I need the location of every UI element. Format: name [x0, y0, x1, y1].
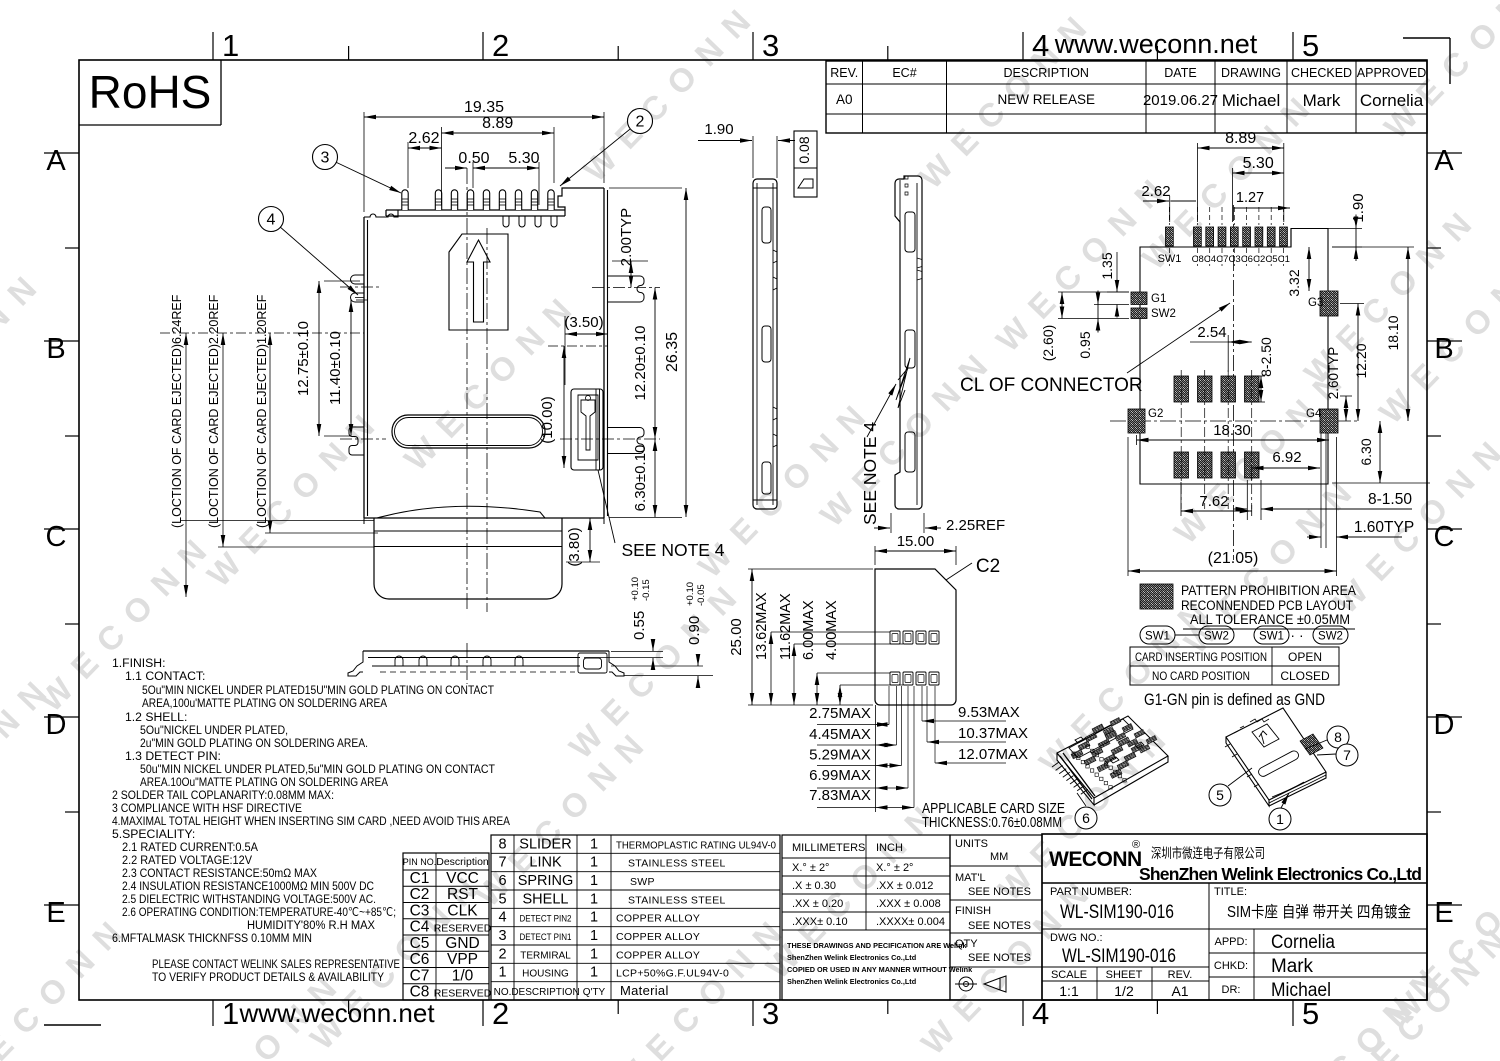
dimension 2.25REF	[874, 513, 1005, 534]
dimension 2.60 0.95 pcb	[1040, 291, 1129, 362]
dimension 1.90 pcb	[1294, 193, 1367, 261]
card contact pads row2	[890, 672, 939, 685]
svg-text:深圳市微连电子有限公司: 深圳市微连电子有限公司	[1151, 845, 1265, 861]
svg-text:X.° ± 2°: X.° ± 2°	[876, 862, 913, 874]
svg-text:1: 1	[590, 873, 598, 889]
middle pads row 1	[1174, 376, 1259, 402]
svg-text:ShenZhen Welink Electronics Co: ShenZhen Welink Electronics Co.,Ltd	[787, 953, 916, 962]
svg-text:.XXXX± 0.004: .XXXX± 0.004	[876, 916, 945, 928]
svg-text:CL OF CONNECTOR: CL OF CONNECTOR	[960, 375, 1143, 396]
svg-text:www.weconn.net: www.weconn.net	[238, 998, 435, 1028]
svg-text:2.6 OPERATING CONDITION:TEMPER: 2.6 OPERATING CONDITION:TEMPERATURE-40℃~…	[122, 905, 396, 919]
svg-text:1: 1	[590, 836, 598, 852]
svg-text:.X ± 0.30: .X ± 0.30	[792, 880, 836, 892]
svg-text:.XXX ± 0.008: .XXX ± 0.008	[876, 898, 941, 910]
svg-text:1.60TYP: 1.60TYP	[1354, 519, 1414, 536]
svg-text:26.35: 26.35	[664, 332, 681, 372]
dimension 18.30 pcb	[1137, 422, 1330, 445]
oblong slot	[392, 415, 545, 448]
svg-text:12.20±0.10: 12.20±0.10	[632, 326, 649, 401]
sw ovals	[1140, 626, 1348, 644]
svg-text:APPROVED: APPROVED	[1357, 66, 1426, 80]
3d view exploded	[1052, 716, 1168, 805]
3d view assembled	[1225, 708, 1326, 806]
svg-text:4.45MAX: 4.45MAX	[809, 726, 871, 743]
svg-text:10.37MAX: 10.37MAX	[958, 725, 1028, 742]
svg-text:Cornelia: Cornelia	[1360, 91, 1424, 110]
svg-text:SEE NOTES: SEE NOTES	[968, 920, 1031, 932]
svg-text:SLIDER: SLIDER	[519, 836, 571, 852]
svg-text:3: 3	[762, 996, 779, 1031]
svg-text:1.90: 1.90	[1350, 193, 1367, 222]
svg-text:5Ou"MIN NICKEL UNDER PLATED15U: 5Ou"MIN NICKEL UNDER PLATED15U"MIN GOLD …	[142, 683, 494, 697]
svg-text:4.00MAX: 4.00MAX	[824, 600, 840, 660]
dimension 12.20 18.10 pcb	[1332, 247, 1414, 421]
svg-text:(3.50): (3.50)	[564, 314, 603, 331]
pad C7	[1218, 227, 1226, 246]
svg-text:1.3 DETECT PIN:: 1.3 DETECT PIN:	[125, 749, 221, 763]
dimension 19.35	[364, 99, 604, 212]
RoHS logo box	[79, 60, 221, 125]
svg-text:PATTERN PROHIBITION AREA: PATTERN PROHIBITION AREA	[1181, 583, 1356, 598]
svg-text:SCALE: SCALE	[1051, 969, 1087, 981]
svg-text:DESCRIPTION: DESCRIPTION	[511, 987, 579, 998]
svg-text:B: B	[46, 333, 65, 365]
svg-text:ShenZhen Welink Electronics Co: ShenZhen Welink Electronics Co.,Ltd	[1139, 864, 1422, 884]
pad SW1 top	[1166, 227, 1174, 246]
svg-text:SPRING: SPRING	[518, 873, 574, 889]
middle pads row 2	[1174, 452, 1259, 478]
svg-text:4.MAXIMAL TOTAL HEIGHT WHEN IN: 4.MAXIMAL TOTAL HEIGHT WHEN INSERTING SI…	[112, 814, 511, 828]
svg-text:3 COMPLIANCE WITH HSF DIRECTIV: 3 COMPLIANCE WITH HSF DIRECTIVE	[112, 801, 302, 815]
svg-text:2.1 RATED CURRENT:0.5A: 2.1 RATED CURRENT:0.5A	[122, 840, 259, 854]
svg-text:Q'TY: Q'TY	[583, 987, 606, 998]
svg-text:SW1: SW1	[1259, 631, 1284, 643]
svg-text:C2: C2	[1253, 254, 1265, 265]
svg-text:C8: C8	[410, 984, 430, 1001]
dimension 8-2.50 pcb	[1252, 337, 1274, 402]
svg-text:1: 1	[222, 28, 239, 63]
see note 4 front	[598, 470, 725, 560]
svg-text:1.FINISH:: 1.FINISH:	[112, 656, 166, 670]
svg-text:D: D	[46, 709, 67, 741]
balloon 8	[1305, 726, 1349, 749]
svg-text:0.90: 0.90	[686, 616, 703, 645]
svg-text:PIN NO.: PIN NO.	[403, 857, 437, 867]
svg-text:6.30±0.10: 6.30±0.10	[632, 445, 649, 512]
svg-text:8.89: 8.89	[482, 115, 513, 132]
pad C8	[1194, 227, 1202, 246]
svg-text:1/2: 1/2	[1114, 983, 1134, 999]
svg-text:FINISH: FINISH	[955, 905, 991, 917]
svg-text:2.75MAX: 2.75MAX	[809, 705, 871, 722]
svg-text:CLK: CLK	[447, 902, 478, 919]
svg-text:1:1: 1:1	[1059, 983, 1079, 999]
dimension (21.05) pcb	[1128, 437, 1337, 576]
svg-text:(10.00): (10.00)	[539, 396, 556, 444]
svg-text:3: 3	[498, 928, 506, 944]
svg-text:1: 1	[222, 996, 239, 1031]
svg-text:A0: A0	[836, 92, 853, 107]
side view 2	[895, 176, 922, 509]
pad C6	[1243, 227, 1251, 246]
svg-text:2.54: 2.54	[1197, 324, 1226, 341]
svg-text:6.00MAX: 6.00MAX	[801, 600, 817, 660]
svg-text:DESCRIPTION: DESCRIPTION	[1004, 66, 1089, 80]
dimension 8.89 pcb	[1198, 130, 1284, 222]
svg-text:DRAWING: DRAWING	[1221, 66, 1281, 80]
svg-text:2.5 DIELECTRIC WITHSTANDING VO: 2.5 DIELECTRIC WITHSTANDING VOLTAGE:500V…	[122, 892, 376, 906]
svg-text:QTY: QTY	[955, 938, 978, 950]
svg-text:DATE: DATE	[1164, 66, 1196, 80]
svg-text:C1: C1	[410, 870, 430, 887]
svg-text:5: 5	[1302, 996, 1319, 1031]
dimension 25.00 card	[728, 569, 873, 705]
svg-text:12.20: 12.20	[1353, 343, 1369, 378]
svg-text:PART NUMBER:: PART NUMBER:	[1050, 886, 1132, 898]
svg-text:2u"MIN GOLD PLATING ON SOLDERI: 2u"MIN GOLD PLATING ON SOLDERING AREA.	[140, 736, 368, 750]
svg-text:SIM卡座 自弹 带开关 四角镀金: SIM卡座 自弹 带开关 四角镀金	[1227, 903, 1411, 921]
dimension 1.60TYP pcb	[1307, 433, 1414, 548]
svg-text:1: 1	[590, 928, 598, 944]
svg-text:APPD:: APPD:	[1214, 936, 1247, 948]
svg-text:6.92: 6.92	[1272, 449, 1301, 466]
svg-text:.XXX± 0.10: .XXX± 0.10	[792, 916, 848, 928]
svg-text:G4: G4	[1306, 408, 1322, 420]
svg-text:2: 2	[492, 996, 509, 1031]
pcb centerlines	[1110, 205, 1360, 560]
svg-text:4: 4	[267, 212, 276, 229]
svg-text:TO VERIFY PRODUCT DETAILS & AV: TO VERIFY PRODUCT DETAILS & AVAILABILITY	[152, 970, 384, 984]
side view 1	[753, 179, 777, 509]
revision table	[826, 61, 1427, 133]
svg-text:1.35: 1.35	[1099, 252, 1115, 279]
projection symbol	[955, 976, 1006, 992]
svg-text:· ·: · ·	[1290, 627, 1303, 643]
svg-text:C5: C5	[1265, 254, 1277, 265]
svg-text:A: A	[1434, 145, 1454, 177]
svg-text:(LOCTION OF CARD EJECTED)2.20R: (LOCTION OF CARD EJECTED)2.20REF	[207, 294, 221, 528]
svg-text:Material: Material	[620, 983, 669, 998]
svg-text:THICKNESS:0.76±0.08MM: THICKNESS:0.76±0.08MM	[922, 815, 1062, 831]
svg-text:1: 1	[1276, 811, 1284, 827]
svg-text:E: E	[1434, 897, 1453, 929]
svg-text:WECONN: WECONN	[1049, 848, 1142, 871]
svg-text:DETECT PIN1: DETECT PIN1	[520, 932, 572, 943]
svg-text:SW1: SW1	[1145, 631, 1170, 643]
svg-text:SW1: SW1	[1158, 253, 1182, 265]
svg-text:-0.15: -0.15	[641, 579, 652, 601]
card ejected labels	[160, 294, 378, 597]
svg-text:RST: RST	[447, 886, 479, 903]
see note 4 side	[860, 384, 896, 525]
pad G3	[1320, 291, 1338, 316]
dimension 2.62 pcb	[1141, 183, 1196, 222]
svg-text:SWP: SWP	[630, 876, 655, 888]
centerlines front view	[467, 168, 487, 612]
front view solder pins	[402, 190, 557, 227]
svg-text:Description: Description	[436, 856, 489, 868]
svg-text:NO.: NO.	[494, 987, 512, 998]
svg-text:GND: GND	[445, 935, 479, 952]
balloon 3	[325, 157, 401, 193]
balloon 2	[560, 121, 640, 186]
svg-text:SEE NOTES: SEE NOTES	[968, 952, 1031, 964]
svg-text:1: 1	[590, 855, 598, 871]
svg-text:5.SPECIALITY:: 5.SPECIALITY:	[112, 827, 195, 841]
svg-text:CLOSED: CLOSED	[1280, 669, 1330, 683]
svg-text:1.27: 1.27	[1236, 190, 1264, 206]
svg-text:13.62MAX: 13.62MAX	[754, 592, 770, 660]
svg-text:2.3 CONTACT RESISTANCE:50mΩ MA: 2.3 CONTACT RESISTANCE:50mΩ MAX	[122, 866, 317, 880]
dimension 15.00 card	[875, 533, 956, 565]
card chamfer leader C2	[946, 556, 1000, 580]
dimension 1.90 side view	[698, 121, 795, 178]
dimension 1.27 pcb	[1234, 190, 1291, 208]
svg-text:AREA,100u'MATTE PLATING ON SOL: AREA,100u'MATTE PLATING ON SOLDERING ARE…	[142, 696, 388, 710]
svg-text:NEW RELEASE: NEW RELEASE	[997, 92, 1095, 107]
svg-text:C2: C2	[410, 886, 430, 903]
svg-text:Michael: Michael	[1222, 91, 1281, 110]
tolerance table	[782, 835, 950, 1000]
svg-text:2.2 RATED VOLTAGE:12V: 2.2 RATED VOLTAGE:12V	[122, 853, 253, 867]
svg-text:SW2: SW2	[1204, 631, 1229, 643]
svg-text:6.99MAX: 6.99MAX	[809, 767, 871, 784]
svg-text:DETECT PIN2: DETECT PIN2	[520, 914, 572, 925]
dimension 5.30 pcb	[1233, 155, 1284, 222]
svg-text:1.1 CONTACT:: 1.1 CONTACT:	[125, 669, 205, 683]
svg-text:E: E	[46, 897, 65, 929]
svg-text:THERMOPLASTIC RATING UL94V-0: THERMOPLASTIC RATING UL94V-0	[616, 839, 776, 851]
right edge clips	[560, 276, 660, 454]
svg-text:Cornelia: Cornelia	[1271, 932, 1335, 953]
pad centerline dashes top row	[1169, 207, 1283, 266]
svg-text:C3: C3	[1229, 254, 1241, 265]
svg-text:6.MFTALMASK THICKNFSS 0.10MM M: 6.MFTALMASK THICKNFSS 0.10MM MIN	[112, 931, 312, 945]
svg-text:6: 6	[498, 873, 506, 889]
svg-text:RESERVED: RESERVED	[434, 923, 492, 935]
svg-text:MAT'L: MAT'L	[955, 872, 986, 884]
svg-text:C6: C6	[1241, 254, 1253, 265]
svg-text:D: D	[1434, 709, 1455, 741]
svg-text:8: 8	[1334, 729, 1342, 745]
svg-text:SW2: SW2	[1151, 308, 1176, 320]
svg-text:C: C	[46, 521, 67, 553]
svg-text:2.4 INSULATION RESISTANCE1000M: 2.4 INSULATION RESISTANCE1000MΩ MIN 500V…	[122, 879, 374, 893]
pattern prohibition area note	[1140, 583, 1356, 629]
svg-text:4: 4	[1032, 28, 1049, 63]
applicable card outline	[875, 569, 956, 705]
svg-text:B: B	[1434, 333, 1453, 365]
svg-text:4: 4	[498, 910, 506, 926]
dimension 2.00TYP right	[612, 208, 648, 288]
svg-text:6: 6	[1082, 810, 1090, 826]
svg-text:C7: C7	[1216, 254, 1228, 265]
pad C2	[1255, 227, 1263, 246]
svg-text:3: 3	[321, 150, 330, 167]
svg-text:NO CARD POSITION: NO CARD POSITION	[1152, 669, 1250, 683]
svg-text:8.89: 8.89	[1225, 130, 1256, 147]
svg-text:CHKD:: CHKD:	[1214, 960, 1248, 972]
units column	[950, 835, 1042, 1000]
svg-text:C5: C5	[410, 935, 430, 952]
svg-text:0.55: 0.55	[631, 611, 648, 640]
svg-text:SEE NOTE 4: SEE NOTE 4	[860, 422, 880, 525]
svg-text:REV.: REV.	[1168, 969, 1193, 981]
svg-text:EC#: EC#	[892, 66, 916, 80]
svg-text:PLEASE CONTACT WELINK SALES RE: PLEASE CONTACT WELINK SALES REPRESENTATI…	[152, 957, 400, 971]
svg-text:7.83MAX: 7.83MAX	[809, 787, 871, 804]
pad C4	[1206, 227, 1214, 246]
dimension (3.50)	[564, 314, 608, 385]
card bottom dimensions left	[809, 705, 914, 812]
svg-text:18.10: 18.10	[1385, 315, 1401, 350]
svg-text:2: 2	[636, 114, 645, 131]
svg-text:OPEN: OPEN	[1288, 650, 1322, 664]
svg-text:C8: C8	[1192, 254, 1204, 265]
svg-text:LINK: LINK	[529, 855, 562, 871]
svg-text:RESERVED: RESERVED	[434, 988, 492, 1000]
card pad leader lines	[889, 686, 935, 808]
svg-text:COPIED OR USED IN ANY MANNER W: COPIED OR USED IN ANY MANNER WITHOUT Wel…	[787, 965, 973, 974]
svg-text:5: 5	[1302, 28, 1319, 63]
svg-text:(21.05): (21.05)	[1208, 550, 1259, 567]
dimension 0.55 0.90 bottom view	[584, 577, 713, 688]
svg-text:C: C	[1434, 521, 1455, 553]
svg-text:2.00TYP: 2.00TYP	[618, 208, 635, 266]
svg-text:19.35: 19.35	[464, 99, 504, 116]
dimension 0.50 / 5.30	[445, 150, 540, 205]
svg-text:5: 5	[498, 891, 506, 907]
pad column centerlines	[1181, 370, 1252, 509]
svg-text:VCC: VCC	[446, 870, 479, 887]
svg-text:0.95: 0.95	[1077, 331, 1093, 358]
pad G1	[1131, 292, 1147, 305]
svg-text:COPPER ALLOY: COPPER ALLOY	[616, 949, 700, 961]
pad C3	[1230, 227, 1238, 246]
svg-text:2 SOLDER TAIL COPLANARITY:0.08: 2 SOLDER TAIL COPLANARITY:0.08MM MAX:	[112, 788, 334, 802]
svg-text:12.07MAX: 12.07MAX	[958, 746, 1028, 763]
svg-text:9.53MAX: 9.53MAX	[958, 704, 1020, 721]
svg-text:2.60TYP: 2.60TYP	[1326, 347, 1341, 400]
svg-text:MM: MM	[990, 851, 1008, 863]
applicable card size text	[922, 801, 1065, 831]
svg-text:8-2.50: 8-2.50	[1258, 337, 1274, 377]
svg-text:WL-SIM190-016: WL-SIM190-016	[1060, 902, 1174, 923]
balloon 5	[1209, 768, 1252, 806]
svg-text:.XX ± 0.20: .XX ± 0.20	[792, 898, 843, 910]
svg-text:G1: G1	[1151, 293, 1166, 305]
svg-text:5: 5	[1216, 787, 1224, 803]
svg-text:7: 7	[1343, 747, 1351, 763]
dimension 2.54 pcb	[1190, 324, 1252, 372]
svg-text:(LOCTION OF CARD EJECTED)1.20R: (LOCTION OF CARD EJECTED)1.20REF	[255, 294, 269, 528]
cl of connector label	[960, 303, 1230, 396]
svg-text:2.62: 2.62	[408, 130, 439, 147]
svg-text:+0.10: +0.10	[685, 582, 696, 606]
svg-text:ShenZhen Welink Electronics Co: ShenZhen Welink Electronics Co.,Ltd	[787, 977, 916, 986]
svg-text:DWG NO.:: DWG NO.:	[1050, 932, 1103, 944]
dimension 8-1.50 pcb	[1233, 480, 1412, 520]
svg-text:5.30: 5.30	[1243, 155, 1274, 172]
pad C1	[1280, 227, 1288, 246]
detect pin detail box	[571, 389, 603, 470]
balloon 7	[1317, 744, 1358, 766]
svg-text:3: 3	[762, 28, 779, 63]
svg-text:2019.06.27: 2019.06.27	[1143, 92, 1218, 109]
svg-text:CARD INSERTING POSITION: CARD INSERTING POSITION	[1135, 650, 1267, 664]
dimension 1.35 pcb	[1099, 252, 1129, 318]
svg-text:G1-GN pin is defined as GND: G1-GN pin is defined as GND	[1144, 690, 1325, 709]
svg-text:2: 2	[498, 946, 506, 962]
balloon 1	[1269, 793, 1291, 830]
svg-text:1: 1	[590, 946, 598, 962]
svg-text:C7: C7	[410, 967, 430, 984]
svg-text:15.00: 15.00	[897, 533, 935, 550]
svg-text:5Ou"NICKEL UNDER PLATED,: 5Ou"NICKEL UNDER PLATED,	[140, 723, 288, 737]
svg-text:7: 7	[498, 855, 506, 871]
svg-text:RoHS: RoHS	[89, 66, 212, 118]
svg-text:ALL TOLERANCE ±0.05MM: ALL TOLERANCE ±0.05MM	[1190, 612, 1350, 627]
svg-text:0.08: 0.08	[796, 136, 812, 163]
svg-text:1/0: 1/0	[452, 967, 474, 984]
svg-text:(2.60): (2.60)	[1040, 325, 1056, 362]
svg-text:SEE NOTE 4: SEE NOTE 4	[621, 540, 724, 560]
finish notes text	[112, 656, 511, 984]
svg-text:2.25REF: 2.25REF	[946, 517, 1005, 534]
dimension 7.62 pcb	[1181, 482, 1252, 516]
svg-text:C4: C4	[410, 919, 430, 936]
card position table	[1130, 647, 1339, 685]
svg-text:G3: G3	[1308, 297, 1323, 309]
svg-text:LCP+50%G.F.UL94V-0: LCP+50%G.F.UL94V-0	[616, 968, 729, 980]
svg-text:COPPER ALLOY: COPPER ALLOY	[616, 913, 700, 925]
svg-text:25.00: 25.00	[728, 618, 745, 656]
svg-text:1.90: 1.90	[704, 121, 733, 138]
svg-text:DR:: DR:	[1222, 984, 1241, 996]
svg-text:-0.05: -0.05	[696, 584, 707, 606]
svg-text:1.2 SHELL:: 1.2 SHELL:	[125, 710, 187, 724]
svg-text:C4: C4	[1204, 254, 1216, 265]
flatness symbol box	[794, 131, 817, 197]
svg-text:STAINLESS STEEL: STAINLESS STEEL	[628, 894, 726, 906]
svg-text:SW2: SW2	[1318, 631, 1343, 643]
pad G2	[1128, 409, 1145, 433]
svg-text:3.32: 3.32	[1286, 269, 1302, 296]
svg-text:5.30: 5.30	[508, 150, 539, 167]
svg-text:.XX ± 0.012: .XX ± 0.012	[876, 880, 933, 892]
card bottom dimensions right	[922, 704, 1028, 763]
svg-text:12.75±0.10: 12.75±0.10	[295, 321, 312, 396]
svg-text:18.30: 18.30	[1213, 422, 1251, 439]
svg-text:RECONNENDED PCB LAYOUT: RECONNENDED PCB LAYOUT	[1181, 598, 1353, 613]
svg-text:MILLIMETERS: MILLIMETERS	[792, 842, 865, 854]
title block	[1042, 834, 1427, 1001]
svg-text:®: ®	[1132, 839, 1140, 851]
svg-text:+0.10: +0.10	[630, 577, 641, 601]
card below front view	[364, 506, 604, 599]
svg-text:WL-SIM190-016: WL-SIM190-016	[1062, 946, 1176, 967]
svg-text:Michael: Michael	[1271, 980, 1331, 1001]
dimension 6.92 pcb	[1252, 449, 1320, 480]
dimension 2.62 top	[408, 130, 442, 188]
svg-text:HUMIDITY'80% R.H MAX: HUMIDITY'80% R.H MAX	[247, 918, 375, 932]
balloon 4	[271, 219, 358, 295]
svg-text:0.50: 0.50	[458, 150, 489, 167]
left edge nubs and clips	[340, 275, 386, 455]
dimension (3.80)	[566, 518, 600, 567]
dimension 6.30 pcb	[1332, 421, 1430, 483]
